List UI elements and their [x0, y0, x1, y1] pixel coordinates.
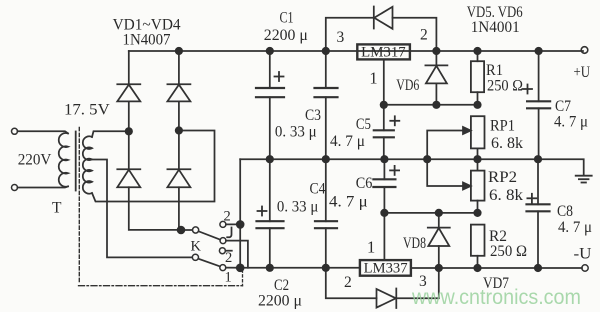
svg-text:6. 8k: 6. 8k — [489, 187, 523, 204]
svg-text:1N4007: 1N4007 — [123, 32, 171, 49]
potentiometer RP2 — [477, 159, 479, 170]
capacitor C4 — [325, 159, 327, 221]
transformer T core — [75, 132, 77, 191]
resistor R1 — [477, 51, 479, 61]
diode VD3 — [117, 168, 140, 170]
svg-text:1: 1 — [367, 238, 375, 257]
resistor R2 — [471, 225, 485, 256]
op-amp regulator U1 LM317 — [357, 44, 410, 59]
svg-text:220V: 220V — [18, 152, 52, 169]
switch K pole2 contact 2 stub — [219, 248, 225, 254]
wire secondary bottom to AC node B — [92, 131, 215, 202]
capacitor C5 — [383, 105, 385, 131]
label hook 1 — [227, 228, 231, 238]
switch K pole2 common contact — [192, 254, 198, 260]
transformer T primary winding — [59, 133, 68, 187]
svg-text:-U: -U — [574, 246, 592, 263]
wire adjust rail top — [384, 104, 478, 106]
switch K pole2 contact 1 — [220, 265, 226, 271]
wire bottom rail (- unregulated) — [237, 267, 360, 269]
svg-text:C3: C3 — [305, 107, 321, 124]
switch K pole1 lever — [199, 231, 221, 239]
wire AC bottom to primary — [18, 186, 69, 187]
diode VD8 — [438, 213, 440, 228]
svg-text:250 Ω: 250 Ω — [487, 78, 523, 95]
svg-text:4. 7 μ: 4. 7 μ — [330, 133, 365, 150]
svg-text:K: K — [191, 239, 202, 255]
svg-text:VD8: VD8 — [403, 235, 426, 252]
svg-text:2: 2 — [344, 274, 352, 291]
switch K pole1 common contact — [193, 227, 199, 233]
svg-text:1: 1 — [369, 69, 377, 88]
svg-text:2: 2 — [224, 209, 231, 225]
capacitor C6 — [383, 159, 385, 179]
capacitor C2 — [269, 159, 271, 221]
bridge left column wire — [128, 51, 130, 84]
svg-text:C6: C6 — [356, 175, 373, 192]
potentiometer RP1 — [471, 116, 485, 148]
wire — [128, 101, 130, 169]
wire VD7 bypass loop — [326, 268, 377, 299]
svg-text:2200 μ: 2200 μ — [264, 27, 308, 44]
switch K pole1 contact 1 — [220, 238, 226, 244]
terminal AC input bottom — [12, 185, 18, 191]
svg-text:RP1: RP1 — [490, 118, 515, 135]
svg-text:R1: R1 — [486, 62, 503, 79]
wire VD5 bypass loop — [326, 18, 374, 51]
svg-text:3: 3 — [337, 29, 345, 46]
bridge right column wire — [178, 51, 180, 84]
svg-text:6. 8k: 6. 8k — [491, 135, 523, 152]
wire adjust rail bottom — [384, 212, 477, 214]
wire LM317 adjust pin 1 — [383, 60, 385, 105]
svg-text:C7: C7 — [555, 98, 571, 115]
svg-text:+U: +U — [574, 64, 591, 81]
wire — [178, 101, 180, 169]
svg-text:4. 7 μ: 4. 7 μ — [329, 194, 368, 211]
capacitor C3 — [325, 51, 327, 88]
ground — [576, 175, 592, 177]
svg-text:LM317: LM317 — [361, 45, 406, 61]
regulator U2 LM337 — [360, 260, 411, 276]
svg-text:C5: C5 — [356, 116, 371, 133]
wire mid rail 0V — [240, 159, 584, 175]
svg-text:250 Ω: 250 Ω — [490, 243, 527, 260]
diode VD6 — [435, 51, 437, 65]
capacitor C7 — [538, 51, 540, 101]
wire secondary top to AC node A — [92, 131, 129, 137]
diode VD4 — [167, 168, 190, 170]
svg-text:2: 2 — [420, 27, 428, 44]
terminal +U — [581, 47, 588, 54]
wire secondary tap to switch K pole 2 — [92, 160, 192, 258]
svg-text:LM337: LM337 — [364, 261, 408, 277]
terminal -U — [582, 265, 588, 271]
wire RP2 wiper — [427, 159, 465, 186]
wire switch vertical (0V to bottom rail) — [239, 159, 241, 268]
svg-text:RP2: RP2 — [488, 169, 517, 186]
wire AC top to primary — [18, 131, 69, 133]
svg-text:0. 33 μ: 0. 33 μ — [275, 124, 317, 141]
svg-text:2200 μ: 2200 μ — [258, 293, 302, 310]
diode VD2 — [167, 83, 190, 85]
diode VD7 — [377, 289, 396, 308]
svg-text:www.cntronics.com: www.cntronics.com — [411, 285, 581, 309]
capacitor C1 — [269, 51, 271, 88]
svg-text:2: 2 — [225, 250, 232, 266]
wire bridge right bottom to minus node — [178, 187, 180, 230]
wire RP1 wiper — [427, 131, 465, 160]
capacitor C8 — [537, 159, 539, 204]
wire contact1 down to bottom rail — [226, 241, 248, 268]
svg-text:C4: C4 — [310, 181, 326, 198]
switch K pole 1 common wire — [181, 229, 192, 231]
wire top rail (+ unregulated) — [129, 50, 583, 52]
switch K pole2 lever — [198, 259, 220, 267]
svg-text:4. 7 μ: 4. 7 μ — [558, 219, 592, 236]
svg-text:C1: C1 — [280, 10, 294, 27]
svg-text:1: 1 — [225, 270, 232, 286]
svg-text:C2: C2 — [274, 277, 289, 294]
wire bridge left bottom to minus node — [129, 187, 181, 230]
dashed enclosure — [79, 285, 243, 287]
svg-text:0. 33 μ: 0. 33 μ — [277, 199, 318, 216]
wire LM337 adjust pin 1 — [383, 213, 385, 260]
svg-text:C8: C8 — [557, 203, 573, 220]
svg-text:VD6: VD6 — [396, 77, 419, 94]
svg-text:4. 7 μ: 4. 7 μ — [554, 114, 588, 131]
svg-text:17. 5V: 17. 5V — [64, 102, 111, 119]
wire contact2 to vertical — [226, 223, 240, 225]
switch K pole1 contact 2 — [220, 221, 226, 227]
svg-text:T: T — [52, 200, 62, 217]
diode VD5 — [373, 7, 375, 29]
terminal AC input top — [12, 128, 18, 134]
wire LM337 output row to -U — [411, 267, 582, 269]
transformer T secondary winding — [83, 136, 92, 193]
svg-text:1N4001: 1N4001 — [471, 19, 520, 36]
diode VD1 — [117, 83, 140, 85]
